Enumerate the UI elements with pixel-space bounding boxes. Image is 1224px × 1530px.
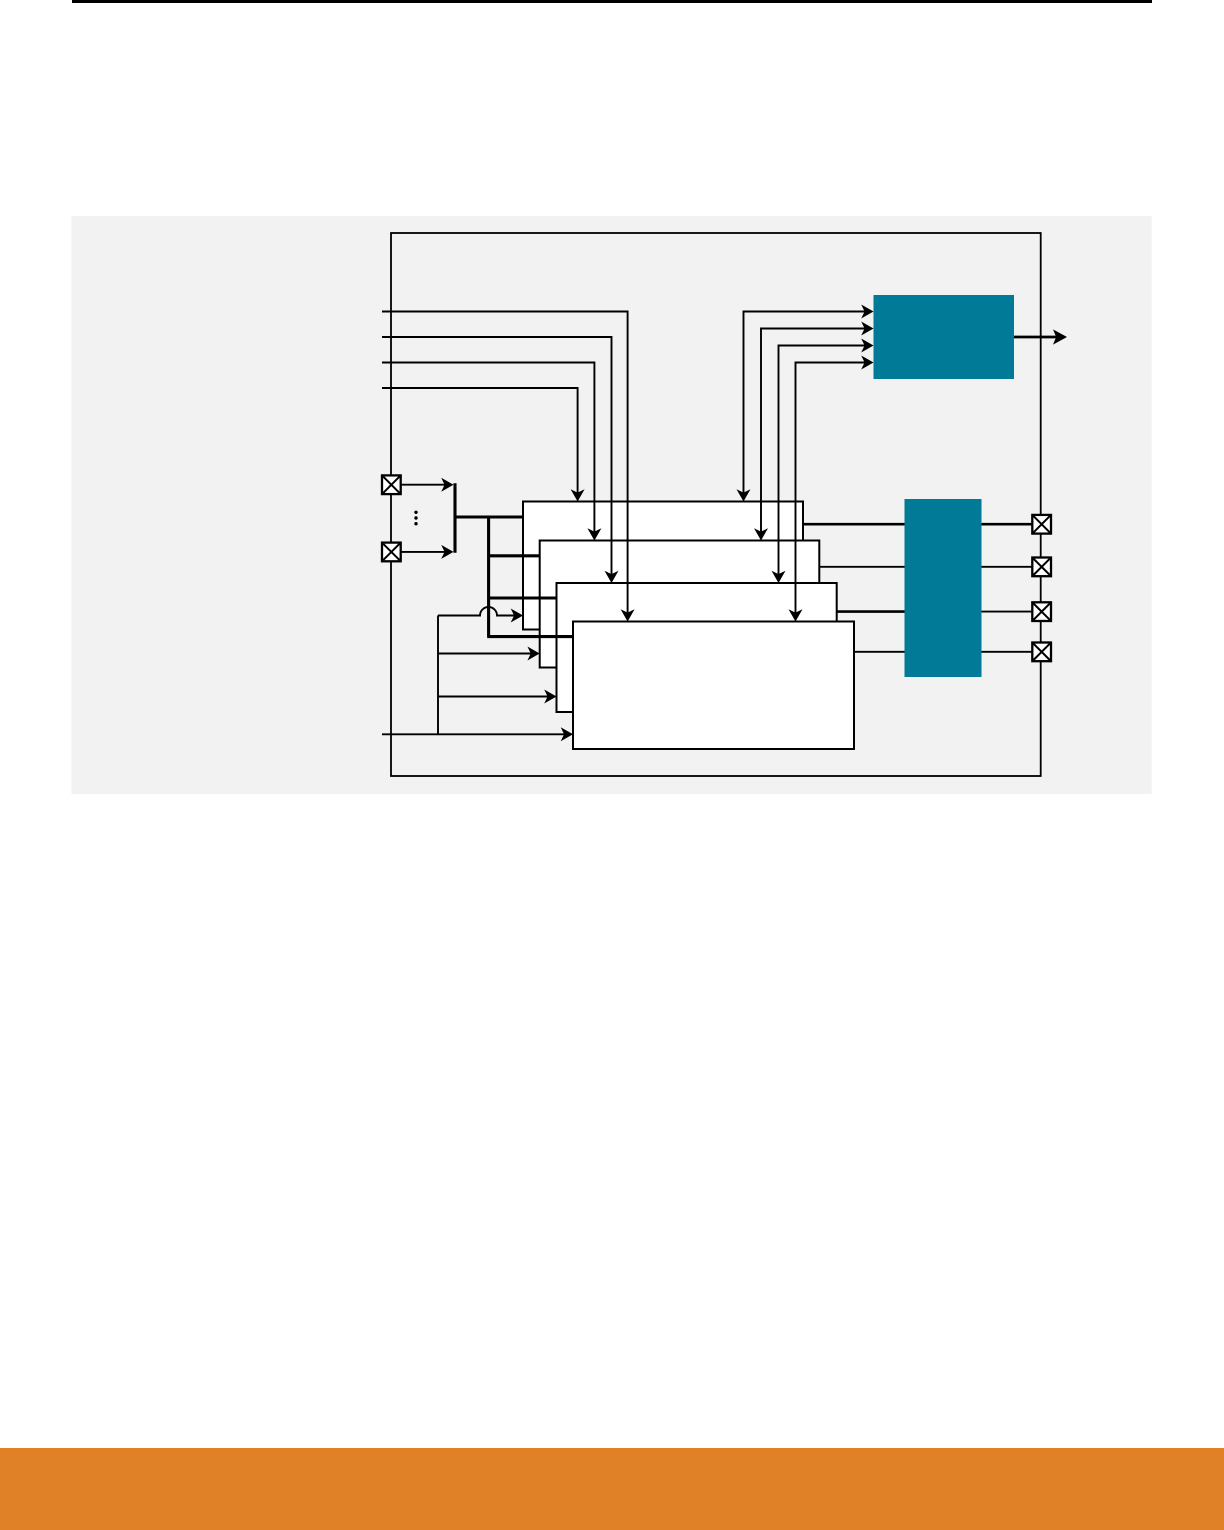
bottom orange footer bar <box>0 1448 1224 1530</box>
wire pin L1 to collector bar <box>401 484 452 486</box>
wire pin L2 to collector bar <box>401 551 452 553</box>
wire channel 1 right (thick bus) <box>982 523 1033 526</box>
top header rule <box>72 0 1152 3</box>
thick bus vertical <box>487 517 490 637</box>
wire channel 2 right <box>982 566 1033 568</box>
register block box1 <box>523 502 803 630</box>
pin R2 (crossed pad) <box>1032 558 1051 577</box>
thick bus to box2 <box>489 554 540 557</box>
wire branch into box2 <box>438 653 538 655</box>
ellipsis dots between pins <box>414 511 417 514</box>
wire clock distribution vertical <box>437 616 439 735</box>
wire stub input 4 (drops into box1 top) <box>382 388 578 500</box>
module boundary rectangle <box>391 233 1041 776</box>
wire channel 4 right <box>982 651 1033 653</box>
wire stub input 2 (drops into box3 top) <box>382 337 612 581</box>
wire elbow net 4 (into U1 and box4 top) <box>796 363 872 620</box>
wire bottom stub into box4 <box>382 733 571 735</box>
wire channel 4 left <box>854 651 905 653</box>
teal block U2 (right mux) <box>905 499 982 677</box>
wire stub input 1 (drops into box4 top) <box>382 312 628 620</box>
register block box3 <box>557 583 837 712</box>
collector bar <box>453 483 456 552</box>
pin L2 (crossed pad) <box>382 543 401 562</box>
wire branch with hop into box1 <box>438 607 521 616</box>
pin R4 (crossed pad) <box>1032 643 1051 662</box>
gray figure panel <box>72 216 1152 794</box>
thick bus to box4 <box>487 635 573 638</box>
wire channel 2 left <box>819 566 904 568</box>
register block box2 <box>540 541 820 668</box>
teal block U1 (top right) <box>874 295 1015 379</box>
wire channel 3 left (thick bus) <box>837 610 905 613</box>
wire channel 1 left (thick bus) <box>803 523 905 526</box>
pin L1 (crossed pad) <box>382 475 401 494</box>
thick bus to box1 <box>455 515 523 518</box>
pin R1 (crossed pad) <box>1032 515 1051 534</box>
wire elbow net 2 (into U1 and box2 top) <box>761 329 872 539</box>
wire elbow net 3 (into U1 and box3 top) <box>779 346 872 582</box>
thick bus to box3 <box>489 596 557 599</box>
wire U1 output arrow <box>1014 336 1065 339</box>
wire stub input 3 (drops into box2 top) <box>382 363 594 539</box>
pin R3 (crossed pad) <box>1032 602 1051 621</box>
wire channel 3 right <box>982 611 1033 613</box>
wire branch into box3 <box>438 696 555 698</box>
register block box4 <box>573 622 854 750</box>
wire elbow net 1 (into U1 and box1 top) <box>744 312 872 500</box>
